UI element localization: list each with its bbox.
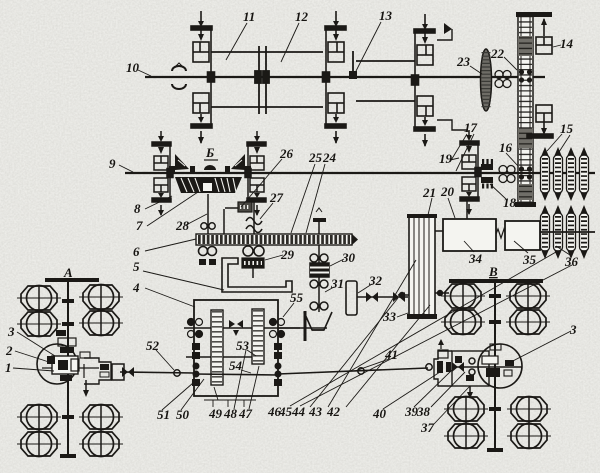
leader 53 — [247, 350, 256, 356]
vertical link under unit — [253, 201, 255, 245]
leader 17a — [450, 134, 467, 162]
leader 13 — [356, 22, 381, 71]
svg-text:Б: Б — [205, 145, 214, 160]
svg-text:6: 6 — [133, 244, 140, 259]
svg-text:44: 44 — [291, 404, 306, 419]
leader 41 — [355, 359, 389, 371]
gear tick 13 — [352, 51, 354, 79]
shaft 10 main top shaft — [145, 76, 545, 78]
hook to flag D top — [437, 29, 452, 40]
ASSEMBLY A — [17, 278, 123, 458]
shift bracket 5 — [222, 258, 292, 292]
svg-text:54: 54 — [229, 358, 243, 373]
svg-text:15: 15 — [560, 121, 574, 136]
wheel A4 — [79, 311, 123, 336]
gear band 54 — [252, 309, 264, 364]
wheel B3 — [441, 310, 485, 335]
side pins of band 33 — [398, 294, 409, 296]
svg-text:30: 30 — [341, 250, 356, 265]
leader 5 — [143, 271, 224, 290]
differential A — [42, 367, 99, 369]
wheel B1 — [441, 284, 485, 309]
gearbox input A upper — [58, 338, 76, 346]
wheel B7 — [444, 424, 488, 449]
coupling at B input — [426, 364, 432, 370]
bearing forks on upper shaft — [188, 319, 285, 338]
leader 12 — [281, 23, 299, 62]
gear pair under rack left — [199, 247, 208, 256]
svg-text:9: 9 — [109, 156, 116, 171]
svg-text:37: 37 — [420, 420, 435, 435]
lower line to unit 13 — [356, 100, 415, 102]
leader 54 — [241, 370, 251, 373]
clutch unit 8 left of cone drum — [152, 131, 173, 216]
fork tick above rack — [318, 222, 320, 234]
gear mesh coupling 12 — [255, 46, 269, 114]
svg-text:50: 50 — [176, 407, 190, 422]
spring 27 — [246, 218, 262, 233]
gear band 53 — [211, 310, 223, 385]
leader 36 — [556, 246, 570, 255]
leader 7 — [147, 192, 198, 226]
top box B — [438, 350, 448, 358]
wheel column links B — [462, 283, 464, 335]
leader 19 — [450, 158, 459, 160]
svg-text:22: 22 — [490, 46, 505, 61]
link 26 to rack — [223, 209, 225, 234]
svg-text:3: 3 — [569, 322, 577, 337]
gear pair lower — [310, 302, 318, 310]
svg-text:2: 2 — [5, 343, 13, 358]
svg-text:19: 19 — [439, 151, 453, 166]
leader 21 — [428, 198, 432, 215]
leader 52 — [156, 350, 174, 370]
svg-text:27: 27 — [269, 190, 284, 205]
wheel A1 — [17, 286, 61, 311]
leader 49 — [204, 399, 256, 401]
gearbox upper shaft — [184, 327, 300, 329]
mesh arrows on upper shaft — [229, 320, 243, 336]
leader 29 — [265, 255, 283, 260]
gearbox 4 frame — [194, 300, 278, 396]
leader 20 — [448, 198, 455, 218]
clutch-gear unit 11 left — [191, 11, 215, 144]
wheel B2 — [506, 284, 550, 309]
svg-text:5: 5 — [133, 259, 140, 274]
wheel A5 — [17, 405, 61, 430]
long propeller shaft A to B — [120, 372, 194, 373]
svg-text:29: 29 — [280, 247, 295, 262]
leader 27 — [260, 203, 273, 219]
gear band 33 — [407, 214, 437, 319]
leader 28 — [186, 214, 207, 225]
svg-text:53: 53 — [236, 338, 250, 353]
leader 43 — [328, 260, 416, 407]
leader 40 — [383, 372, 440, 409]
final drive housing A — [37, 344, 77, 384]
svg-text:55: 55 — [290, 290, 304, 305]
left frame gear cluster — [192, 343, 200, 386]
leader 33 — [397, 313, 408, 317]
leader 26 — [241, 159, 282, 207]
flag D — [444, 23, 452, 34]
wheel A3 — [17, 312, 61, 337]
svg-text:13: 13 — [379, 8, 393, 23]
leader 9 — [119, 165, 133, 172]
leader 24 — [306, 164, 325, 233]
leader 1 left — [13, 368, 54, 371]
band bottom cap — [515, 202, 536, 207]
svg-text:52: 52 — [146, 338, 160, 353]
svg-text:32: 32 — [368, 273, 383, 288]
leader 42 — [346, 305, 430, 407]
svg-text:35: 35 — [522, 252, 537, 267]
lower gear train line — [211, 106, 323, 108]
LEADER LINES — [13, 22, 572, 424]
shaft joint circle 41 — [358, 368, 364, 374]
svg-text:3: 3 — [7, 324, 15, 339]
svg-text:10: 10 — [126, 60, 140, 75]
wheel A6 — [79, 405, 123, 430]
leader 47 — [249, 366, 259, 409]
gearbox mid shaft — [186, 356, 263, 358]
control box 34 — [443, 219, 496, 251]
bogie frame bar B top — [449, 279, 543, 283]
svg-text:8: 8 — [134, 201, 141, 216]
svg-text:34: 34 — [468, 251, 483, 266]
coupling at A output — [122, 367, 134, 377]
leader 37 — [434, 386, 470, 424]
friction cone left — [175, 154, 189, 170]
axle A — [67, 282, 69, 458]
hatched box 29 — [242, 258, 264, 268]
link from drum to rack — [207, 194, 209, 234]
leader 3 left — [17, 332, 55, 356]
upper gear train line 11 — [211, 51, 323, 53]
wheel B8 — [507, 424, 551, 449]
gear pair 29 — [243, 246, 253, 256]
svg-text:21: 21 — [422, 185, 436, 200]
leader 15b — [559, 135, 570, 152]
rack bar 24/25 — [196, 234, 358, 245]
leader 35 — [514, 241, 528, 253]
leader 48 — [234, 350, 246, 409]
leader 22 — [504, 57, 517, 70]
svg-text:20: 20 — [440, 184, 455, 199]
band-shaft dots — [519, 69, 532, 179]
leader 4 — [145, 288, 195, 307]
bottom fork B — [469, 386, 471, 396]
leader 14 — [553, 45, 561, 47]
svg-text:12: 12 — [295, 9, 309, 24]
input cluster B — [437, 361, 443, 373]
cylinder 32 — [346, 281, 357, 315]
svg-text:38: 38 — [416, 404, 431, 419]
vertical link rack to 30 — [318, 245, 320, 312]
leader 32 — [358, 284, 372, 293]
wheel A8 — [79, 432, 123, 457]
bearings on shaft 9 — [481, 164, 493, 183]
svg-text:47: 47 — [238, 406, 253, 421]
wheel B6 — [507, 397, 551, 422]
svg-text:1: 1 — [5, 360, 12, 375]
svg-text:36: 36 — [564, 254, 579, 269]
wheel column links — [38, 285, 40, 337]
svg-text:45: 45 — [278, 404, 293, 419]
bogie frame bar A top — [45, 278, 99, 282]
shaft joint circle 52 — [174, 370, 180, 376]
leader 30 — [330, 259, 344, 266]
leader 17b — [456, 134, 474, 171]
upper line to unit 13 — [356, 60, 415, 62]
clutch box 14 upper — [536, 18, 552, 54]
svg-text:51: 51 — [157, 407, 170, 422]
chain band 22 — [518, 13, 533, 206]
leader 8 — [145, 196, 172, 209]
svg-text:7: 7 — [136, 218, 143, 233]
svg-text:43: 43 — [308, 404, 323, 419]
link unit to 34 — [466, 201, 468, 219]
svg-text:49: 49 — [208, 406, 223, 421]
final drive housing B — [478, 344, 522, 388]
leader 10 — [138, 70, 151, 76]
leader 50 — [181, 379, 204, 410]
wheel B4 — [506, 310, 550, 335]
leader 3 right — [507, 331, 571, 364]
band top cap bar — [516, 12, 552, 17]
axle B — [494, 283, 496, 452]
bearing squares at drum sides — [169, 166, 175, 173]
control box 35 — [505, 221, 540, 250]
leader 45 — [300, 265, 572, 406]
svg-text:17: 17 — [464, 120, 478, 135]
axle ticks A — [62, 299, 74, 303]
leader 18 — [490, 184, 506, 199]
link band to 34 — [435, 230, 443, 232]
svg-text:11: 11 — [243, 9, 255, 24]
svg-text:26: 26 — [279, 146, 294, 161]
svg-text:4: 4 — [132, 280, 140, 295]
leader 51 — [162, 383, 193, 410]
leader 11 — [226, 23, 247, 60]
cone drum 7 — [175, 177, 242, 193]
funnel guide — [304, 312, 332, 330]
side drive A right — [84, 358, 111, 384]
clutch unit right of drum — [245, 131, 266, 216]
clutch unit 19 on shaft 9 — [460, 130, 481, 215]
element 26 small gear box — [225, 207, 240, 209]
hook to label 17 bottom — [437, 120, 468, 130]
synchro box 30 — [310, 263, 329, 277]
clutch-gear unit 13 (mirrored) — [412, 14, 436, 147]
inner gears B — [452, 366, 522, 368]
leader 31 — [325, 287, 334, 292]
leader 55 — [283, 303, 294, 317]
coils 15 — [541, 149, 550, 199]
svg-text:23: 23 — [456, 54, 471, 69]
hatched ellipse 23 — [481, 49, 492, 111]
svg-text:42: 42 — [326, 404, 341, 419]
spring between 34 and 35 — [496, 229, 509, 238]
leader 44 — [310, 298, 398, 407]
svg-text:25: 25 — [308, 150, 323, 165]
friction cone right — [231, 154, 245, 170]
svg-text:18: 18 — [503, 195, 517, 210]
leader 2 left — [15, 351, 52, 363]
svg-text:41: 41 — [384, 347, 398, 362]
leader 6 — [145, 239, 196, 251]
gear pair above 30 — [310, 254, 318, 262]
leader 25 — [291, 164, 315, 233]
gear pair below 30 — [310, 280, 318, 288]
leader 38 — [431, 372, 465, 407]
ASSEMBLY B — [434, 279, 551, 452]
wheel A7 — [17, 432, 61, 457]
wheel B5 — [444, 397, 488, 422]
right frame gear cluster — [274, 343, 282, 386]
bottom fork A — [85, 380, 87, 394]
bearing arcs on shaft 10 left — [172, 66, 186, 71]
svg-text:31: 31 — [330, 276, 344, 291]
underline B — [204, 159, 218, 161]
svg-text:33: 33 — [382, 309, 397, 324]
svg-text:40: 40 — [372, 406, 387, 421]
svg-text:28: 28 — [175, 218, 190, 233]
leader 34 — [464, 241, 474, 252]
bearing on shaft 10 — [495, 71, 511, 88]
svg-text:48: 48 — [223, 406, 238, 421]
linkage line 32 to band — [357, 296, 408, 298]
left step housing B — [434, 351, 452, 386]
leader 15a — [547, 134, 562, 151]
leader 23 — [470, 66, 482, 74]
wheel A2 — [79, 285, 123, 310]
svg-text:А: А — [63, 265, 73, 280]
line 35 to coils 36 — [540, 231, 595, 233]
arc symbol Б under label — [204, 165, 216, 170]
clutch-gear unit 12 right (mirrored) — [323, 11, 347, 144]
coils 36 — [541, 207, 550, 257]
link 29 box to bracket — [252, 268, 254, 278]
leader 39 — [414, 370, 452, 407]
axle ticks B — [489, 294, 501, 298]
leader 46 — [290, 252, 556, 406]
shaft 9 second shaft — [125, 172, 595, 174]
svg-text:В: В — [488, 264, 498, 279]
clutch box 14 lower with T-bar — [527, 105, 553, 138]
svg-text:14: 14 — [560, 36, 574, 51]
svg-text:24: 24 — [322, 150, 337, 165]
leader 16 — [506, 153, 518, 166]
gear frame B — [452, 351, 489, 386]
svg-text:16: 16 — [499, 140, 513, 155]
